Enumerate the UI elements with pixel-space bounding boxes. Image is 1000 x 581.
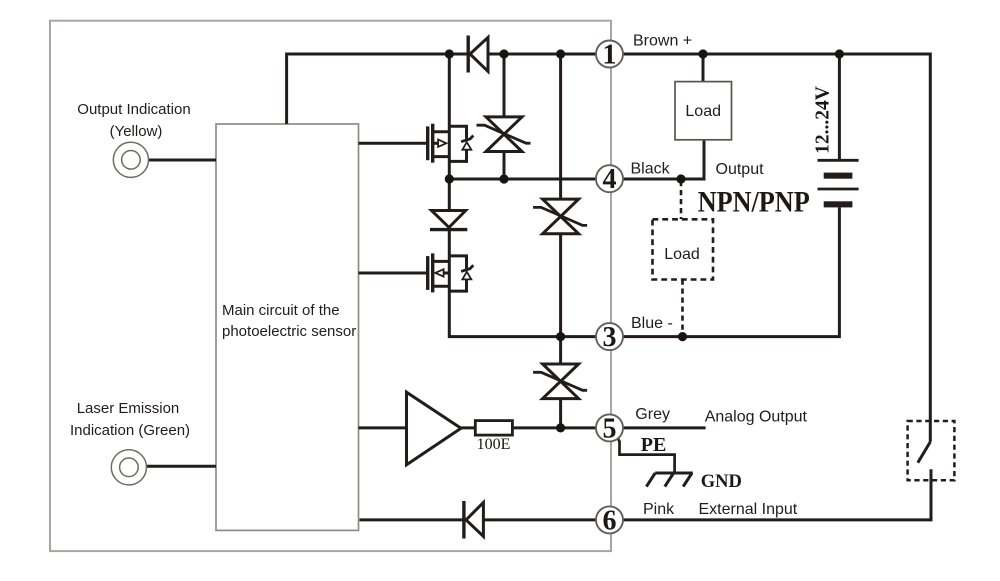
svg-text:1: 1	[603, 39, 617, 70]
svg-text:GND: GND	[701, 472, 742, 492]
svg-text:Indication (Green): Indication (Green)	[70, 422, 190, 439]
svg-text:Grey: Grey	[635, 406, 670, 423]
svg-text:3: 3	[603, 322, 617, 353]
svg-text:4: 4	[603, 164, 617, 195]
svg-text:(Yellow): (Yellow)	[110, 123, 163, 140]
svg-text:Brown +: Brown +	[633, 33, 692, 50]
svg-text:Output Indication: Output Indication	[77, 101, 190, 118]
svg-text:Black: Black	[631, 161, 671, 178]
svg-text:6: 6	[603, 505, 617, 536]
svg-text:Pink: Pink	[643, 501, 675, 518]
svg-text:Analog Output: Analog Output	[705, 409, 808, 426]
svg-text:12...24V: 12...24V	[813, 86, 834, 154]
svg-text:Blue -: Blue -	[631, 315, 673, 332]
svg-text:100E: 100E	[477, 436, 511, 453]
svg-text:5: 5	[603, 413, 617, 444]
svg-text:External Input: External Input	[699, 501, 798, 518]
svg-text:Main circuit of the: Main circuit of the	[222, 302, 340, 319]
svg-text:Load: Load	[685, 103, 721, 120]
svg-text:PE: PE	[641, 434, 667, 456]
svg-text:photoelectric sensor: photoelectric sensor	[222, 323, 356, 340]
svg-text:Output: Output	[716, 161, 765, 178]
svg-text:NPN/PNP: NPN/PNP	[698, 186, 810, 219]
svg-text:Laser Emission: Laser Emission	[77, 400, 180, 417]
svg-text:Load: Load	[664, 246, 700, 263]
